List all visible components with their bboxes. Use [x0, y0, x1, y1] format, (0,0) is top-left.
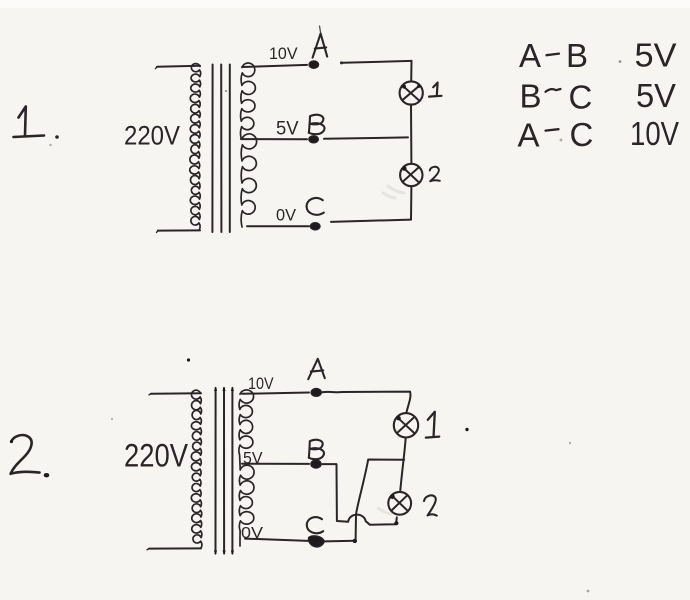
- svg-text:10V: 10V: [269, 44, 298, 63]
- svg-text:5V: 5V: [635, 36, 677, 73]
- svg-text:220V: 220V: [124, 121, 180, 151]
- svg-text:5V: 5V: [276, 119, 299, 140]
- svg-text:5V: 5V: [243, 449, 263, 468]
- svg-text:10V: 10V: [248, 374, 274, 393]
- svg-text:5V: 5V: [636, 77, 676, 114]
- svg-text:B: B: [566, 37, 588, 74]
- svg-text:A: A: [519, 37, 541, 74]
- svg-text:10V: 10V: [630, 115, 679, 152]
- svg-text:A: A: [518, 117, 540, 154]
- svg-text:0V: 0V: [241, 525, 263, 542]
- svg-text:0V: 0V: [276, 205, 297, 224]
- svg-text:C: C: [570, 116, 594, 153]
- svg-text:C: C: [569, 79, 593, 116]
- svg-text:220V: 220V: [124, 438, 189, 474]
- svg-text:B: B: [520, 78, 542, 115]
